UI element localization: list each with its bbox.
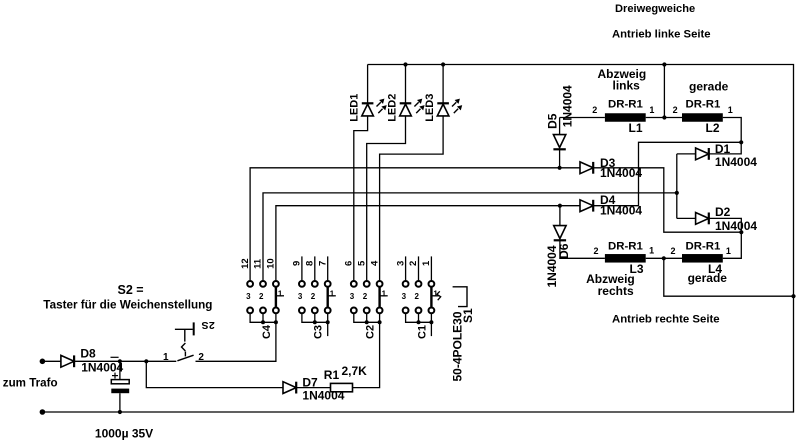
svg-text:1N4004: 1N4004 <box>600 204 642 218</box>
svg-text:LED3: LED3 <box>424 94 436 122</box>
svg-text:3: 3 <box>395 261 406 266</box>
wire LED3 to bus <box>442 65 444 104</box>
C3 common stub <box>327 322 329 336</box>
wire to D6 <box>559 206 561 226</box>
diode D8 <box>61 355 74 367</box>
svg-text:D6: D6 <box>557 243 571 259</box>
svg-text:4: 4 <box>369 260 380 266</box>
LED LED2 <box>400 99 425 116</box>
wire to D1 <box>677 153 696 155</box>
inductor L3 <box>605 254 646 262</box>
junction D2/D3/L4 <box>739 230 743 234</box>
svg-text:R1: R1 <box>324 368 340 382</box>
junction C3 rail <box>326 320 330 324</box>
wire top bus + right rail + bottom rail <box>42 65 793 413</box>
wire L1 pin1 - L2 pin2 <box>646 117 682 119</box>
svg-text:DR-R1: DR-R1 <box>608 240 643 252</box>
junction D6/D4 <box>558 204 562 208</box>
svg-text:3: 3 <box>298 292 303 301</box>
svg-text:2: 2 <box>408 261 419 266</box>
switch pole C4 contacts <box>247 281 284 313</box>
svg-text:DR-R1: DR-R1 <box>686 240 721 252</box>
svg-text:1: 1 <box>382 289 387 298</box>
wire bus to L1/L2 junction <box>663 65 665 118</box>
wire S2 to C4 common <box>196 322 276 361</box>
wire D7 to R1 <box>296 387 330 389</box>
junction L2 pin1 node <box>739 140 743 144</box>
svg-text:1: 1 <box>330 289 335 298</box>
stub C1 top pin <box>430 256 432 281</box>
C1 pin stub <box>418 314 420 323</box>
wire LED3 to C2 pin 4 <box>380 116 444 281</box>
wire D1/D2 anode riser <box>676 154 678 219</box>
svg-text:2: 2 <box>415 292 420 301</box>
C1 common stub <box>430 322 432 336</box>
svg-text:6: 6 <box>344 261 355 266</box>
svg-text:2: 2 <box>311 292 316 301</box>
svg-text:2: 2 <box>593 246 598 256</box>
svg-text:1: 1 <box>649 245 654 255</box>
wire R1 to C2 common <box>353 322 380 387</box>
stub C3 top pin <box>301 256 303 281</box>
LED LED1 <box>362 99 387 116</box>
diode D6 <box>554 226 566 241</box>
junction C1 rail <box>429 320 433 324</box>
svg-text:3: 3 <box>402 292 407 301</box>
junction C4 rail <box>274 320 278 324</box>
svg-text:LED2: LED2 <box>386 94 398 122</box>
svg-text:C2: C2 <box>365 325 377 339</box>
svg-text:Antrieb linke Seite: Antrieb linke Seite <box>612 29 711 41</box>
switch pole C2 contacts <box>351 281 388 313</box>
svg-text:gerade: gerade <box>689 79 729 93</box>
junction D5/D3 <box>558 166 562 170</box>
svg-text:1: 1 <box>421 260 432 266</box>
svg-text:D2: D2 <box>715 205 731 219</box>
svg-text:2: 2 <box>673 105 678 115</box>
svg-text:11: 11 <box>253 258 264 269</box>
wire capacitor to bottom rail <box>119 393 121 412</box>
junction right rail <box>791 294 795 298</box>
svg-text:2: 2 <box>670 246 675 256</box>
C4 pin stub <box>262 314 264 323</box>
wire L3 pin1 - L4 pin2 <box>646 257 682 259</box>
C3 pin stub <box>314 314 316 323</box>
svg-text:S: S <box>201 319 208 331</box>
svg-text:9: 9 <box>292 261 303 266</box>
wire D5 cathode <box>559 149 561 168</box>
svg-text:D5: D5 <box>546 113 560 129</box>
svg-text:gerade: gerade <box>688 271 728 285</box>
inductor L1 <box>605 113 646 122</box>
wire LED2 to bus <box>405 65 407 104</box>
svg-text:S2 =: S2 = <box>118 283 144 297</box>
S1 actuator link <box>437 291 441 300</box>
svg-text:DR-R1: DR-R1 <box>608 99 643 111</box>
svg-text:LED1: LED1 <box>348 94 360 122</box>
wire LED1 to C2 pin 6 <box>354 116 368 281</box>
svg-text:C1: C1 <box>416 325 428 339</box>
svg-text:links: links <box>613 78 641 92</box>
wire LED2 to C2 pin 5 <box>367 116 406 281</box>
stub C3 top pin <box>327 256 329 281</box>
wire C4 pin10 to D4 <box>276 206 580 281</box>
wire D4 cathode to L2 pin1 node <box>593 142 741 205</box>
wire D3 cathode to L4 pin1 node <box>593 168 741 232</box>
svg-text:1000µ 35V: 1000µ 35V <box>95 427 153 441</box>
C1 common rail <box>406 314 432 323</box>
svg-text:1: 1 <box>278 289 283 298</box>
svg-text:2: 2 <box>592 105 597 115</box>
wire L3/L4 mid to right rail <box>664 258 794 296</box>
wire L1 pin2 to D5 <box>560 117 605 119</box>
junction L3/L4 <box>662 256 666 260</box>
svg-text:5: 5 <box>356 260 367 266</box>
svg-text:S1: S1 <box>461 308 475 323</box>
svg-text:1: 1 <box>163 352 169 363</box>
svg-text:D1: D1 <box>715 142 731 156</box>
junction LED3 bus <box>441 62 445 66</box>
wire D1 cathode up <box>709 142 741 154</box>
diode D4 <box>580 200 593 212</box>
inductor L2 <box>682 113 723 122</box>
svg-text:10: 10 <box>266 258 277 269</box>
svg-text:D8: D8 <box>80 346 96 360</box>
svg-text:C4: C4 <box>261 324 273 339</box>
svg-text:1N4004: 1N4004 <box>302 389 344 403</box>
terminal zum Trafo - <box>40 409 46 415</box>
svg-text:1: 1 <box>728 105 733 115</box>
svg-text:2: 2 <box>209 319 215 331</box>
junction C2 rail <box>365 320 369 324</box>
diode D3 <box>580 162 593 174</box>
junction LED2 bus <box>403 62 407 66</box>
junction cap tap <box>118 359 122 363</box>
wire to capacitor <box>119 361 121 379</box>
switch pole C3 contacts <box>299 281 336 313</box>
svg-text:1N4004: 1N4004 <box>81 361 123 375</box>
junction cap bottom <box>118 410 122 414</box>
svg-text:2: 2 <box>363 292 368 301</box>
stub C1 top pin <box>418 256 420 281</box>
wire D2 cathode to L4 pin1 <box>709 218 742 258</box>
inductor L4 <box>682 254 723 262</box>
wire C4 pin11 to D1/D2 anodes <box>263 193 677 281</box>
C3 common rail <box>302 314 328 323</box>
svg-text:DR-R1: DR-R1 <box>686 99 721 111</box>
junction C4 rail <box>261 320 265 324</box>
junction C2 rail <box>378 320 382 324</box>
svg-text:zum Trafo: zum Trafo <box>3 377 58 390</box>
diode D7 <box>283 382 296 394</box>
wire terminal to D8 <box>42 360 61 362</box>
diode D2 <box>696 213 709 225</box>
svg-text:7: 7 <box>317 261 328 266</box>
svg-text:L1: L1 <box>629 121 643 135</box>
C4 common rail <box>250 314 276 323</box>
svg-text:Taster für die Weichenstellung: Taster für die Weichenstellung <box>43 299 212 312</box>
wire LED1 anode to bus <box>367 65 369 104</box>
C2 common rail <box>354 314 380 323</box>
svg-text:1N4004: 1N4004 <box>600 166 642 180</box>
wire to D5 <box>559 118 561 135</box>
junction L1/L2 <box>662 115 666 119</box>
junction S2 node <box>144 359 148 363</box>
wire C4 pin12 to D3 <box>250 168 580 281</box>
svg-text:Dreiwegweiche: Dreiwegweiche <box>615 3 695 15</box>
stub C1 top pin <box>405 256 407 281</box>
svg-text:1N4004: 1N4004 <box>715 155 757 169</box>
LED LED3 <box>437 99 462 116</box>
wire D8 to S2 <box>74 360 176 362</box>
svg-text:Antrieb rechte Seite: Antrieb rechte Seite <box>612 314 720 326</box>
svg-text:3: 3 <box>246 292 251 301</box>
junction bus tap <box>662 62 666 66</box>
svg-text:3: 3 <box>350 292 355 301</box>
switch S1 bracket <box>453 287 467 307</box>
svg-text:1N4004: 1N4004 <box>561 85 575 127</box>
junction C3 rail <box>313 320 317 324</box>
junction D1/D2 anode <box>675 191 679 195</box>
wire L2 pin1 down <box>723 118 741 143</box>
diode D5 <box>553 135 565 150</box>
svg-text:C3: C3 <box>313 325 325 339</box>
junction C1 rail <box>417 320 421 324</box>
capacitor 1000u 35V <box>111 357 130 393</box>
terminal zum Trafo + <box>40 359 46 365</box>
wire D6 cathode to L3 pin2 <box>560 240 605 258</box>
switch S2 pushbutton <box>175 322 194 360</box>
svg-text:1: 1 <box>649 105 654 115</box>
svg-text:rechts: rechts <box>598 284 634 298</box>
svg-text:L2: L2 <box>706 121 720 135</box>
diode D1 <box>696 148 709 160</box>
wire node to D7 <box>146 361 283 387</box>
svg-text:2,7K: 2,7K <box>342 364 368 378</box>
svg-text:1: 1 <box>726 246 731 256</box>
stub C3 top pin <box>314 256 316 281</box>
C2 pin stub <box>366 314 368 323</box>
svg-text:1N4004: 1N4004 <box>715 219 757 233</box>
resistor R1 <box>331 383 353 391</box>
svg-text:D7: D7 <box>302 375 318 389</box>
wire to D2 <box>677 217 696 219</box>
svg-text:2: 2 <box>259 292 264 301</box>
svg-text:12: 12 <box>240 258 251 269</box>
switch pole C1 contacts <box>403 281 440 313</box>
svg-text:8: 8 <box>305 261 316 266</box>
